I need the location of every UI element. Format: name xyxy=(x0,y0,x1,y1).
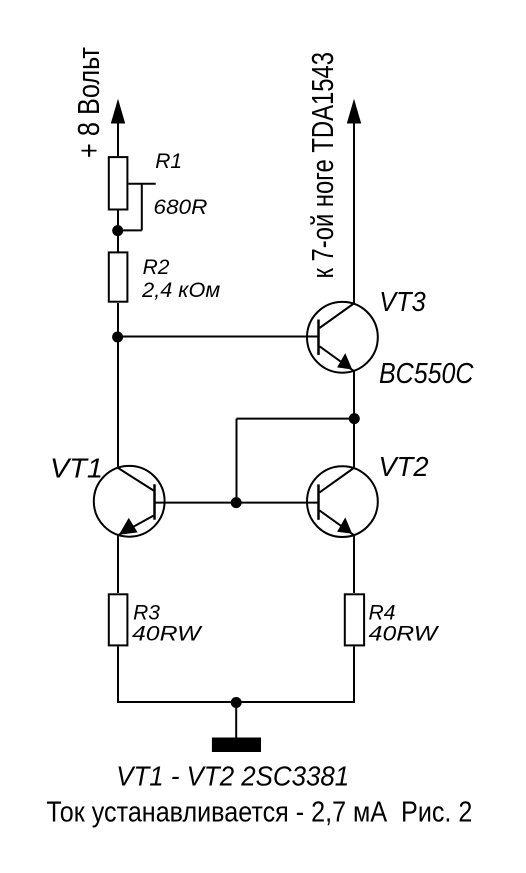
wire R3 to ground rail xyxy=(117,647,119,704)
transistor VT2 xyxy=(307,466,378,537)
node ground xyxy=(231,697,242,708)
svg-text:40RW: 40RW xyxy=(369,623,440,646)
transistor VT3 xyxy=(307,302,378,373)
node base junction xyxy=(231,497,242,508)
svg-text:к 7-ой ноге TDA1543: к 7-ой ноге TDA1543 xyxy=(305,52,340,279)
svg-text:R4: R4 xyxy=(369,602,396,625)
wire feedback vertical xyxy=(236,419,238,503)
power arrow +8V xyxy=(111,99,125,156)
resistor R1 xyxy=(109,157,128,209)
svg-text:680R: 680R xyxy=(153,196,207,219)
wire R1 to R2 xyxy=(117,210,119,252)
node VT3 emitter / VT2 collector xyxy=(349,413,360,424)
svg-text:2,4 кОм: 2,4 кОм xyxy=(141,279,220,302)
svg-text:VT1 - VT2 2SC3381: VT1 - VT2 2SC3381 xyxy=(116,761,349,792)
svg-text:+ 8 Вольт: + 8 Вольт xyxy=(71,47,106,158)
transistor VT1 xyxy=(94,466,165,537)
wire VT3 emitter down xyxy=(353,372,355,468)
svg-text:R1: R1 xyxy=(155,150,182,173)
wire R4 to ground rail xyxy=(353,647,355,704)
wire VT1 base to VT2 base xyxy=(155,502,319,504)
svg-text:Ток устанавливается - 2,7 мА: Ток устанавливается - 2,7 мА Рис. 2 xyxy=(46,796,472,828)
wire R2 to VT1 collector xyxy=(117,303,119,468)
wire VT1 emitter to R3 xyxy=(117,535,119,593)
svg-text:VT1: VT1 xyxy=(50,453,103,484)
svg-text:40RW: 40RW xyxy=(132,623,203,646)
svg-text:VT3: VT3 xyxy=(379,286,426,317)
resistor R4 xyxy=(345,594,364,645)
wire VT2 emitter to R4 xyxy=(353,536,355,593)
wire feedback horizontal xyxy=(237,418,355,420)
resistor R2 xyxy=(109,252,128,301)
resistor R3 xyxy=(109,594,128,645)
R1 tap wire xyxy=(118,184,156,231)
svg-text:BC550C: BC550C xyxy=(379,358,474,390)
ground xyxy=(212,702,261,752)
node VT3 base branch xyxy=(112,332,123,343)
svg-text:VT2: VT2 xyxy=(379,451,429,482)
svg-text:R3: R3 xyxy=(133,602,160,625)
node junction R1 tap xyxy=(112,225,123,236)
ground rail wire xyxy=(118,701,354,703)
wire VT3 collector to TDA arrow xyxy=(347,99,361,303)
wire to VT3 base xyxy=(118,336,319,338)
svg-text:R2: R2 xyxy=(143,256,170,279)
